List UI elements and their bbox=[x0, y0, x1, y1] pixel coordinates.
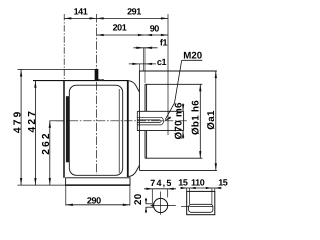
svg-text:291: 291 bbox=[127, 7, 141, 17]
dimension 479 bbox=[20, 69, 22, 185]
dimension 262 bbox=[49, 121, 51, 185]
view A keyway lines bbox=[146, 204, 155, 207]
hollow shaft left collar edge bbox=[136, 111, 138, 130]
svg-text:201: 201 bbox=[113, 23, 127, 33]
shaft end face bbox=[183, 111, 185, 130]
view B bore step lines bbox=[189, 188, 191, 204]
fillet body to flange bottom bbox=[129, 165, 140, 176]
svg-text:427: 427 bbox=[27, 109, 38, 133]
svg-text:f1: f1 bbox=[160, 38, 168, 48]
dimension 15 110 15 bbox=[180, 187, 222, 189]
view A shaft end circle bbox=[154, 198, 168, 212]
horizontal centerline bbox=[49, 120, 64, 122]
spigot face lines bbox=[144, 84, 146, 111]
top left extension line 479 bbox=[18, 68, 96, 70]
svg-text:262: 262 bbox=[41, 131, 52, 155]
svg-text:15: 15 bbox=[178, 177, 188, 187]
svg-text:110: 110 bbox=[191, 177, 205, 187]
extension of body left edge (dash-dot) bbox=[63, 14, 65, 80]
svg-text:c1: c1 bbox=[157, 57, 167, 67]
svg-text:290: 290 bbox=[87, 196, 101, 206]
M20 underline and leader bbox=[164, 60, 203, 121]
vertical centerline input axis bbox=[96, 14, 98, 174]
foot bottom thick line bbox=[65, 184, 130, 186]
spigot bottom edge + Ob1 extension bbox=[145, 157, 202, 159]
hollow shaft outer top bbox=[137, 110, 183, 112]
hollow shaft outer bottom bbox=[137, 130, 183, 132]
view A vertical centerline bbox=[160, 192, 162, 215]
view B centerline stub bbox=[181, 205, 189, 207]
svg-text:90: 90 bbox=[150, 24, 160, 34]
view B edge extensions bbox=[186, 188, 188, 191]
dimension 201 bbox=[97, 34, 145, 36]
f1 extension lines bbox=[142, 48, 144, 71]
view B bore slot bbox=[189, 204, 213, 212]
view A horizontal centerline bbox=[151, 205, 176, 207]
bottom left extension line bbox=[18, 184, 66, 186]
svg-text:Øb1 h6: Øb1 h6 bbox=[191, 100, 202, 135]
gear housing top edge + 427 extension bbox=[33, 80, 129, 82]
spigot top edge + Ob1 extension bbox=[145, 83, 202, 85]
flange plate left face bbox=[138, 71, 140, 170]
svg-text:74,5: 74,5 bbox=[150, 178, 172, 188]
dimension c1 arrows outside bbox=[129, 63, 156, 65]
flange top edge + Oa1 extension bbox=[139, 70, 217, 72]
dia dim Oa1 bbox=[215, 71, 217, 170]
c1 extension line bbox=[138, 64, 140, 71]
flange bottom edge + Oa1 extension bbox=[139, 169, 217, 171]
view B slot inner line bbox=[189, 205, 212, 207]
dimension 141 bbox=[64, 17, 96, 19]
dimension 291 bbox=[97, 17, 168, 19]
view B hub rectangle bbox=[187, 191, 215, 214]
dimension 20 bbox=[145, 198, 147, 213]
svg-text:20: 20 bbox=[133, 193, 144, 205]
bore outer pair bbox=[137, 116, 161, 118]
housing foot bbox=[66, 178, 130, 185]
housing left dark rib band bbox=[66, 96, 69, 162]
svg-text:479: 479 bbox=[13, 109, 24, 133]
extension line right (bore end) bbox=[167, 14, 169, 135]
svg-text:141: 141 bbox=[74, 7, 88, 17]
svg-text:M20: M20 bbox=[183, 51, 202, 62]
dia dim O70 arrows outside bbox=[182, 104, 184, 139]
fillet body to flange top bbox=[129, 81, 140, 92]
dimension 74,5 bbox=[144, 188, 176, 203]
dimension 427 bbox=[34, 81, 36, 186]
svg-text:Øa1: Øa1 bbox=[206, 110, 217, 130]
bore inner pair bbox=[137, 119, 160, 121]
svg-text:15: 15 bbox=[218, 177, 228, 187]
dimension 290 bbox=[66, 186, 130, 206]
breather plug on top bbox=[95, 69, 98, 80]
housing inner rounded face bbox=[69, 85, 122, 175]
small nubs on top edge bbox=[98, 79, 101, 81]
dimension 90 bbox=[145, 34, 168, 36]
dia dim Ob1 bbox=[199, 84, 201, 158]
svg-text:Ø70 m6: Ø70 m6 bbox=[174, 102, 185, 139]
bore end caps bbox=[162, 117, 164, 125]
dimension f1 arrows outside bbox=[134, 47, 158, 49]
housing inner wall line bbox=[118, 89, 120, 173]
gear housing left edge bbox=[63, 81, 65, 178]
gear housing right edge bbox=[127, 81, 129, 177]
